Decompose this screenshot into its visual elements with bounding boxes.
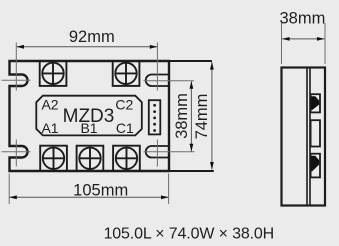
svg-text:C2: C2 — [115, 97, 133, 113]
svg-text:38mm: 38mm — [173, 93, 191, 139]
svg-text:105mm: 105mm — [73, 181, 128, 199]
svg-text:A2: A2 — [41, 97, 58, 113]
svg-text:B1: B1 — [80, 120, 97, 136]
svg-text:C1: C1 — [116, 120, 134, 136]
svg-text:92mm: 92mm — [69, 28, 115, 46]
svg-text:38mm: 38mm — [279, 10, 325, 28]
svg-text:74mm: 74mm — [193, 94, 211, 140]
svg-text:A1: A1 — [41, 120, 58, 136]
svg-text:105.0L × 74.0W × 38.0H: 105.0L × 74.0W × 38.0H — [104, 225, 274, 242]
